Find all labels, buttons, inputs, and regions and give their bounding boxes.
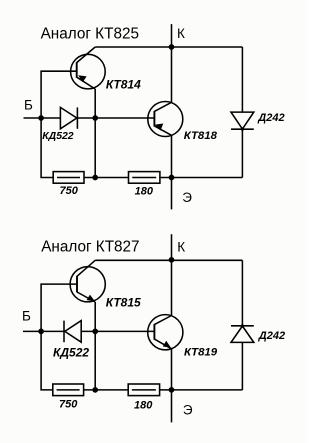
svg-text:750: 750 <box>60 185 79 197</box>
svg-text:180: 180 <box>135 185 154 197</box>
transistor КТ815 (circuit 2, NPN) <box>70 260 105 302</box>
label Д242 (circuit 2) <box>258 330 285 342</box>
svg-text:Э: Э <box>183 403 193 418</box>
wire: КТ818 emitter down to emitter node (circuit 1) <box>171 135 173 177</box>
wire: diode anode to mid node (circuit 2) <box>81 330 154 332</box>
wire: КТ818 collector up to collector node (circuit 1) <box>171 47 173 102</box>
terminal Э (circuit 2) <box>183 403 193 418</box>
wire: Б lead to diode cathode (circuit 2) <box>23 330 64 332</box>
label КТ815 <box>106 296 141 310</box>
wire: base node down to resistor row (circuit 1) <box>41 118 53 178</box>
junction: base node (circuit 2) <box>38 329 44 335</box>
label КТ814 <box>106 77 141 91</box>
diode Д242 (circuit 2) <box>231 260 254 390</box>
wire: base node down to resistor row (circuit 2) <box>41 331 53 390</box>
wire: mid node down to resistor junction (circuit 2) <box>94 331 96 390</box>
terminal Э (circuit 1) <box>182 190 192 205</box>
label КТ818 <box>184 130 218 142</box>
label КТ819 <box>184 347 218 359</box>
resistor 180 (circuit 2) <box>128 384 159 396</box>
value 180 (circuit 1) <box>135 185 154 197</box>
svg-text:750: 750 <box>59 398 78 410</box>
wire: between resistors (circuit 1) <box>84 177 129 179</box>
svg-text:КТ814: КТ814 <box>106 77 141 91</box>
svg-text:Э: Э <box>182 190 192 205</box>
junction: collector node (circuit 2) <box>169 257 175 263</box>
title: Аналог КТ827 <box>41 238 139 255</box>
wire: КТ819 collector up to collector node (circuit 2) <box>171 260 173 316</box>
wire: top rail (circuit 1) <box>95 46 242 48</box>
svg-text:180: 180 <box>134 399 153 411</box>
junction: base node (circuit 1) <box>38 115 44 121</box>
svg-text:Аналог КТ825: Аналог КТ825 <box>41 25 139 42</box>
resistor 750 (circuit 2) <box>53 384 84 396</box>
transistor КТ819 (circuit 2, NPN) <box>148 315 183 350</box>
terminal Б (circuit 1) <box>24 97 33 112</box>
wire: emitter rail right (circuit 1) <box>160 177 243 179</box>
wire: diode cathode to mid node (circuit 1) <box>77 117 154 119</box>
wire: КТ815 emitter down to mid node (circuit 2) <box>94 302 96 331</box>
svg-text:Д242: Д242 <box>258 330 285 342</box>
wire: top rail (circuit 2) <box>95 259 242 261</box>
diode КД522 (circuit 1) <box>60 107 77 128</box>
transistor КТ814 (circuit 1, PNP) <box>71 47 106 89</box>
wire: Э lead (circuit 1) <box>171 178 173 210</box>
diode Д242 (circuit 1) <box>231 47 254 178</box>
junction: emitter node (circuit 1) <box>169 175 175 181</box>
svg-text:Б: Б <box>22 308 31 323</box>
junction: mid node on Б line (circuit 1) <box>92 115 98 121</box>
svg-text:Б: Б <box>24 97 33 112</box>
wire: base node up to КТ814 base (circuit 1) <box>41 71 77 118</box>
wire: emitter rail right (circuit 2) <box>160 389 243 391</box>
junction: collector node (circuit 1) <box>169 44 175 50</box>
label Д242 (circuit 1) <box>257 112 284 124</box>
junction: mid node on Б line (circuit 2) <box>92 329 98 335</box>
terminal Б (circuit 2) <box>22 308 31 323</box>
svg-text:К: К <box>177 239 185 254</box>
wire: КТ819 emitter down to emitter node (circuit 2) <box>171 349 173 390</box>
transistor КТ818 (circuit 1, PNP) <box>148 102 183 137</box>
wire: К lead (circuit 1) <box>171 24 173 47</box>
svg-text:КТ815: КТ815 <box>106 296 141 310</box>
junction: emitter node (circuit 2) <box>169 387 175 393</box>
value 180 (circuit 2) <box>134 399 153 411</box>
junction: resistor row mid node (circuit 1) <box>92 175 98 181</box>
svg-text:КД522: КД522 <box>53 346 89 360</box>
resistor 180 (circuit 1) <box>129 172 160 184</box>
value 750 (circuit 1) <box>60 185 79 197</box>
terminal К (circuit 2) <box>177 239 185 254</box>
wire: mid node down to resistor junction (circuit 1) <box>94 118 96 178</box>
diode КД522 (circuit 2) <box>64 321 81 343</box>
svg-text:КТ818: КТ818 <box>184 130 218 142</box>
svg-text:КТ819: КТ819 <box>184 347 218 359</box>
title: Аналог КТ825 <box>41 25 139 42</box>
resistor 750 (circuit 1) <box>53 172 84 184</box>
wire: К lead (circuit 2) <box>171 234 173 260</box>
svg-text:Аналог КТ827: Аналог КТ827 <box>41 238 139 255</box>
label КД522 (circuit 2) <box>53 346 89 360</box>
svg-text:Д242: Д242 <box>257 112 284 124</box>
svg-text:КД522: КД522 <box>42 131 73 142</box>
terminal К (circuit 1) <box>177 26 185 41</box>
label КД522 (circuit 1) <box>42 131 73 142</box>
wire: КТ814 emitter down to mid node (circuit 1) <box>94 89 96 118</box>
wire: between resistors (circuit 2) <box>84 389 129 391</box>
wire: Э lead (circuit 2) <box>171 390 173 423</box>
wire: Б lead to diode anode (circuit 1) <box>24 117 61 119</box>
svg-text:К: К <box>177 26 185 41</box>
value 750 (circuit 2) <box>59 398 78 410</box>
wire: base node up to КТ815 base (circuit 2) <box>41 284 77 331</box>
junction: resistor row mid node (circuit 2) <box>92 387 98 393</box>
